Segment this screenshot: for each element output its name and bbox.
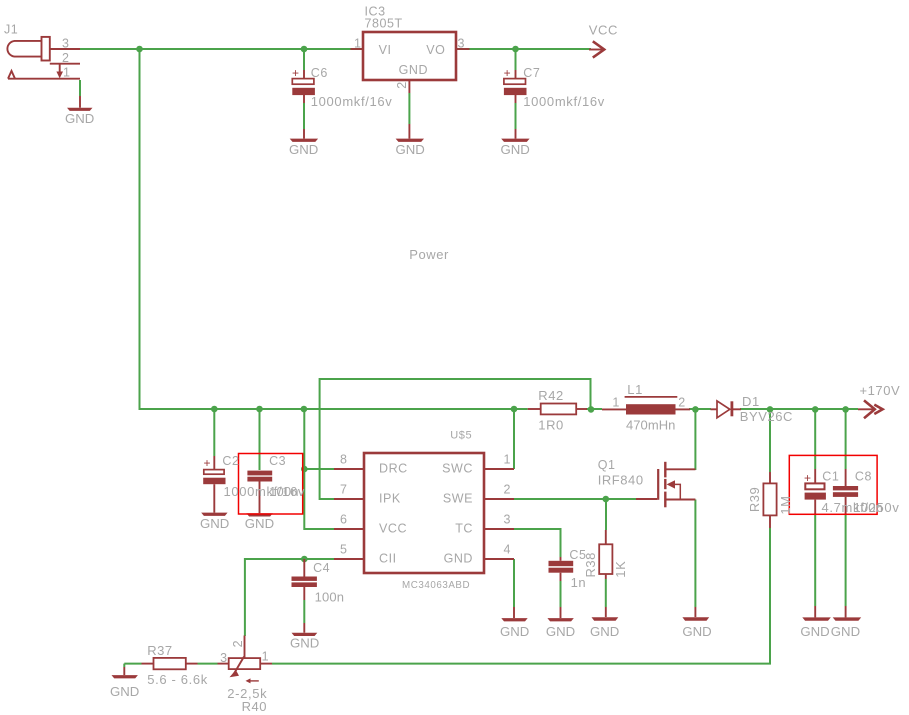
svg-text:1: 1 [354,37,362,51]
svg-text:GND: GND [396,142,425,157]
svg-text:C6: C6 [311,66,328,80]
svg-text:L1: L1 [627,382,643,397]
svg-text:+: + [204,456,212,470]
svg-text:1: 1 [262,650,270,664]
svg-text:5.6 - 6.6k: 5.6 - 6.6k [147,672,208,687]
svg-text:R37: R37 [147,643,173,658]
svg-text:GND: GND [682,624,711,639]
svg-text:C8: C8 [855,469,872,483]
svg-text:R39: R39 [747,487,762,513]
svg-text:1M: 1M [778,495,793,514]
svg-text:GND: GND [110,684,139,699]
svg-text:3: 3 [458,37,466,51]
svg-text:4: 4 [504,543,512,557]
svg-text:GND: GND [245,516,274,531]
svg-text:BYV26C: BYV26C [740,409,793,424]
svg-text:TC: TC [455,522,473,536]
svg-text:VO: VO [426,43,445,57]
svg-text:1000mkf/16v: 1000mkf/16v [523,94,605,109]
svg-text:7: 7 [340,483,348,497]
svg-text:IRF840: IRF840 [598,473,644,488]
svg-text:GND: GND [800,624,829,639]
svg-text:C2: C2 [222,454,239,468]
svg-text:GND: GND [399,63,428,77]
svg-text:5: 5 [340,543,348,557]
svg-text:3: 3 [504,513,512,527]
svg-text:MC34063ABD: MC34063ABD [402,580,470,591]
svg-text:GND: GND [501,142,530,157]
svg-text:GND: GND [444,552,473,566]
svg-text:R40: R40 [242,699,268,714]
svg-text:GND: GND [200,516,229,531]
svg-text:SWE: SWE [443,492,473,506]
svg-text:C7: C7 [523,66,540,80]
svg-text:Q1: Q1 [598,458,616,472]
svg-text:1000mkf/16v: 1000mkf/16v [311,94,393,109]
svg-text:VCC: VCC [589,22,618,37]
svg-text:2: 2 [395,81,409,89]
svg-text:100n: 100n [854,500,884,515]
svg-text:+: + [504,66,512,80]
svg-text:1R0: 1R0 [538,417,564,432]
svg-text:VI: VI [379,43,392,57]
svg-text:R38: R38 [583,552,598,578]
svg-text:1: 1 [612,396,620,410]
svg-text:2: 2 [504,483,512,497]
svg-text:DRC: DRC [379,462,408,476]
svg-text:7805T: 7805T [365,17,403,31]
svg-text:SWC: SWC [442,462,473,476]
svg-text:R42: R42 [538,388,564,403]
svg-text:+: + [292,66,300,80]
svg-text:CII: CII [379,552,397,566]
svg-text:3: 3 [220,651,228,665]
svg-text:GND: GND [831,624,860,639]
svg-text:2: 2 [678,396,686,410]
svg-text:Power: Power [409,247,449,262]
svg-text:2: 2 [62,51,70,65]
svg-text:100n: 100n [315,589,345,604]
svg-text:2: 2 [231,640,245,648]
svg-text:1: 1 [63,66,71,80]
svg-text:GND: GND [65,111,94,126]
svg-text:GND: GND [546,624,575,639]
svg-text:C4: C4 [313,561,330,575]
svg-text:C1: C1 [822,469,839,483]
svg-text:IPK: IPK [379,492,401,506]
svg-text:U$5: U$5 [450,430,472,442]
svg-text:J1: J1 [4,23,18,37]
svg-text:GND: GND [500,624,529,639]
svg-text:GND: GND [290,636,319,651]
svg-text:6: 6 [340,513,348,527]
svg-text:470mHn: 470mHn [626,417,675,432]
svg-text:GND: GND [590,624,619,639]
svg-text:C3: C3 [269,454,286,468]
svg-text:D1: D1 [742,394,760,409]
svg-text:3: 3 [62,37,70,51]
svg-text:100n: 100n [269,484,299,499]
svg-text:VCC: VCC [379,522,407,536]
svg-text:+170V: +170V [860,383,901,398]
svg-text:1: 1 [504,453,512,467]
svg-text:+: + [804,471,812,485]
svg-text:8: 8 [340,453,348,467]
svg-text:1K: 1K [613,561,628,578]
svg-text:GND: GND [289,142,318,157]
